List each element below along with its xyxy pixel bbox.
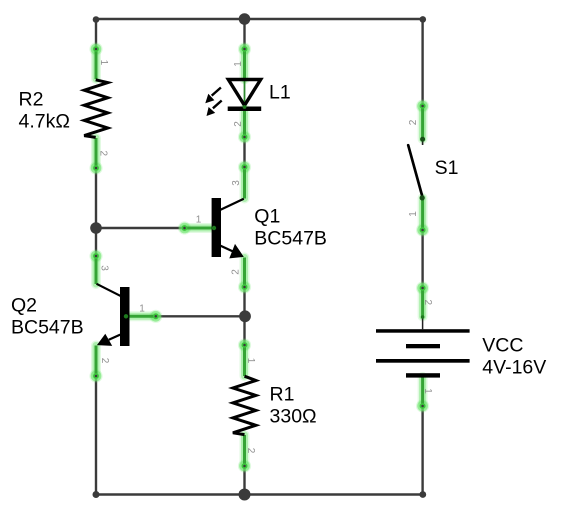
svg-text:3: 3	[98, 265, 109, 271]
svg-text:2: 2	[97, 151, 108, 157]
svg-text:1: 1	[422, 388, 433, 394]
svg-text:2: 2	[408, 119, 419, 125]
svg-text:L1: L1	[269, 82, 291, 104]
svg-text:330Ω: 330Ω	[270, 406, 317, 428]
svg-text:2: 2	[422, 300, 433, 306]
svg-text:4V-16V: 4V-16V	[482, 357, 546, 379]
svg-text:1: 1	[139, 304, 145, 315]
svg-text:VCC: VCC	[482, 335, 523, 357]
svg-text:R2: R2	[19, 89, 44, 111]
svg-text:BC547B: BC547B	[11, 317, 84, 339]
svg-text:1: 1	[233, 61, 244, 67]
svg-text:2: 2	[233, 121, 244, 127]
svg-text:1: 1	[98, 60, 109, 66]
svg-text:2: 2	[231, 269, 242, 275]
svg-text:1: 1	[408, 211, 419, 217]
svg-text:1: 1	[196, 215, 202, 226]
svg-text:BC547B: BC547B	[254, 228, 327, 250]
svg-text:2: 2	[245, 448, 256, 454]
svg-text:R1: R1	[270, 384, 295, 406]
svg-text:2: 2	[99, 358, 110, 364]
svg-text:4.7kΩ: 4.7kΩ	[19, 111, 70, 133]
svg-text:1: 1	[245, 358, 256, 364]
svg-text:Q1: Q1	[254, 206, 280, 228]
svg-text:3: 3	[231, 180, 242, 186]
svg-text:Q2: Q2	[11, 295, 37, 317]
svg-text:S1: S1	[435, 157, 459, 179]
